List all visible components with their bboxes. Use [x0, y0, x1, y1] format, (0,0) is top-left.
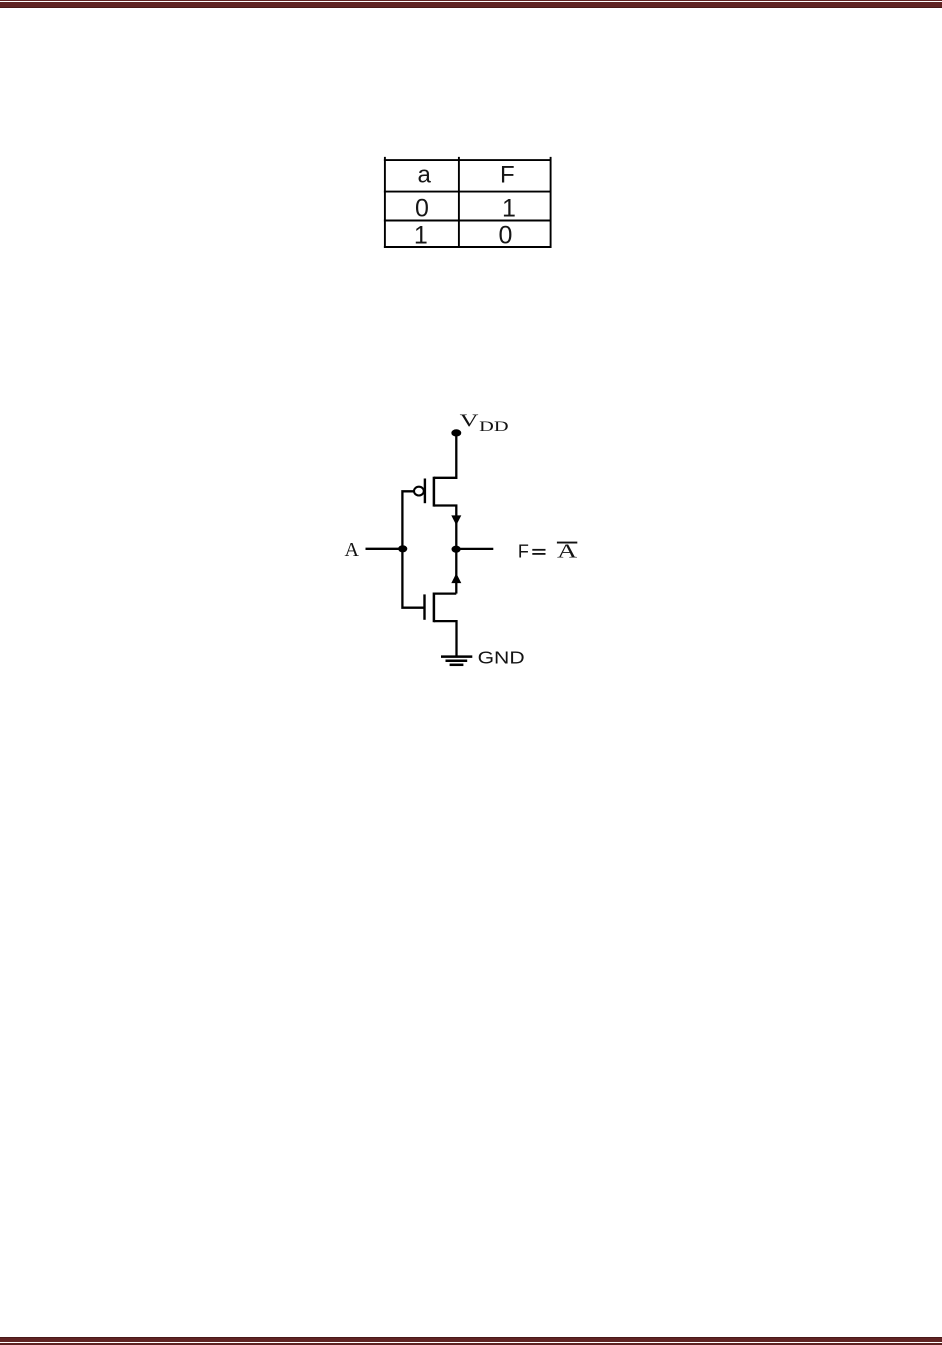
svg-text:V: V	[460, 411, 479, 431]
PMOS gate bubble	[414, 487, 424, 496]
NMOS gate bar	[423, 594, 425, 619]
table bottom line	[384, 246, 552, 248]
svg-text:1: 1	[414, 222, 428, 250]
transistor Q1 PMOS channel bar	[433, 477, 436, 507]
node VDD (junction dot)	[451, 429, 461, 436]
svg-text:a: a	[418, 162, 432, 189]
top page rule (thin line, gap, thick maroon band)	[0, 0, 942, 1]
svg-text:F: F	[500, 162, 515, 189]
svg-text:F: F	[518, 542, 529, 562]
svg-text:0: 0	[499, 222, 513, 250]
svg-text:0: 0	[415, 194, 429, 222]
current arrow (up) on NMOS drain	[451, 573, 461, 583]
table right border	[550, 157, 552, 248]
table row line 2	[384, 220, 552, 222]
wire NMOS drain terminal	[434, 592, 456, 594]
current arrow (down) on PMOS drain	[451, 515, 461, 525]
overbar of A	[557, 542, 577, 544]
svg-text:A: A	[345, 539, 360, 561]
wire input A to gate bus	[366, 548, 403, 550]
ground symbol	[441, 655, 472, 658]
wire VDD down to PMOS source terminal	[434, 433, 456, 478]
table row line 1	[384, 191, 552, 193]
table column separator	[458, 157, 460, 248]
table top line	[384, 159, 552, 161]
svg-text:GND: GND	[478, 647, 525, 667]
svg-text:DD: DD	[479, 419, 508, 435]
wire output to the right	[456, 548, 493, 550]
wire NMOS source terminal down to ground	[434, 621, 457, 656]
wire gate bus: PMOS gate lead down to NMOS gate lead	[402, 491, 424, 607]
svg-text:1: 1	[502, 194, 516, 222]
wire rail from output node to NMOS drain	[455, 549, 457, 594]
svg-text:A: A	[557, 541, 577, 563]
PMOS gate bar	[424, 479, 426, 504]
node A (input junction dot)	[398, 545, 407, 552]
transistor Q2 NMOS channel bar	[433, 593, 436, 623]
wire PMOS drain terminal to output rail	[434, 506, 456, 550]
table left border	[384, 157, 386, 248]
equals sign of F=	[532, 549, 545, 551]
bottom page rule (thick maroon band, gap, thin line)	[0, 1337, 942, 1343]
node F (output junction dot)	[452, 546, 461, 553]
